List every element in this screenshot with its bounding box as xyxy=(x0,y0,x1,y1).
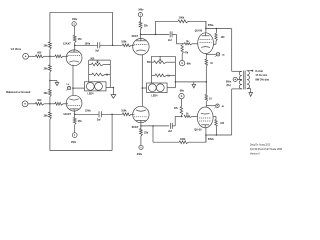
node V3a grid xyxy=(182,43,184,45)
wire OPT bottom lead xyxy=(232,88,242,90)
LED D3 xyxy=(148,84,156,92)
wire driver cathodes xyxy=(141,55,143,106)
svg-text:100k: 100k xyxy=(121,110,127,113)
node A xyxy=(49,56,51,58)
bias terminal -86v lower xyxy=(179,89,185,98)
svg-text:10: 10 xyxy=(210,63,213,65)
wire feedback top rail xyxy=(50,11,113,13)
wire R17 to bias terminal xyxy=(181,54,183,61)
svg-text:LED4: LED4 xyxy=(152,95,159,98)
node B xyxy=(49,80,51,82)
wire OPT to rail lower xyxy=(231,89,233,135)
wire node A down xyxy=(49,56,51,65)
svg-text:8 ohm: 8 ohm xyxy=(255,69,263,73)
wire frame joins P2 xyxy=(152,62,176,75)
wire cathode to TP3 xyxy=(206,105,216,107)
node cathode driver pair xyxy=(142,87,144,89)
node driver ground xyxy=(175,81,177,83)
wire R10 to V2a grid xyxy=(131,44,134,46)
svg-text:10: 10 xyxy=(209,98,212,100)
triode V1a 12AX7 xyxy=(63,42,82,65)
wire rail to OPT top xyxy=(231,29,233,72)
label speaker power xyxy=(255,77,269,81)
svg-text:100: 100 xyxy=(220,123,225,125)
wire V2b plate down xyxy=(140,123,142,126)
node C xyxy=(49,103,51,105)
svg-text:100k: 100k xyxy=(179,17,185,20)
wire feedback up xyxy=(154,21,156,34)
transformer T1 primary xyxy=(239,71,242,89)
wire plate node down xyxy=(74,114,76,117)
node V1b plate xyxy=(74,114,76,116)
svg-text:600: 600 xyxy=(37,99,42,102)
wire J1 to R1 xyxy=(29,55,36,57)
wire V1a cathode down xyxy=(72,65,74,96)
svg-text:47k: 47k xyxy=(78,38,83,41)
wire frame joins P1 xyxy=(89,64,111,74)
wire V1b plate down xyxy=(74,111,76,114)
svg-text:47k: 47k xyxy=(184,52,189,55)
wire R25 to screen lower xyxy=(213,116,216,119)
wire top corner down xyxy=(49,12,51,42)
label LED4 input xyxy=(88,93,95,96)
LED bias box input xyxy=(85,82,107,91)
wire R15 to plate rail xyxy=(189,21,206,28)
wire C4 to rise xyxy=(172,116,182,126)
power terminal 150v lower xyxy=(71,133,77,144)
svg-text:1.6: 1.6 xyxy=(66,84,70,86)
svg-text:17.3v rms: 17.3v rms xyxy=(255,73,268,77)
label LED4 driver xyxy=(152,95,159,98)
wire R23 to screen xyxy=(213,41,216,44)
wire R4 to node B xyxy=(49,72,51,80)
resistor R8 1k xyxy=(55,102,63,105)
label speaker vrms xyxy=(255,73,268,77)
svg-text:100k: 100k xyxy=(180,138,186,141)
wire screen drop xyxy=(215,29,217,34)
resistor R16 1k grid stopper xyxy=(184,41,192,45)
svg-text:2uf: 2uf xyxy=(168,130,172,133)
title line 1 xyxy=(250,143,270,147)
wire OPT top lead xyxy=(232,70,242,72)
wire R21 to V3b grid xyxy=(192,115,198,117)
wire R24 to ground node xyxy=(205,66,207,82)
power terminal -340v driver xyxy=(137,145,143,156)
svg-text:50Vb: 50Vb xyxy=(208,138,214,141)
wire V3a plate up xyxy=(205,21,207,33)
test point TP3 .41 xyxy=(214,104,225,109)
node screen tap upper xyxy=(216,28,218,30)
svg-text:QU-50: QU-50 xyxy=(194,129,202,132)
wire R13 to V2b grid xyxy=(131,113,134,115)
svg-text:1.0 Vrms: 1.0 Vrms xyxy=(11,47,22,51)
wire driver cathode right xyxy=(142,87,146,89)
resistor R11 1k xyxy=(92,73,109,77)
wire R9 to supply xyxy=(74,26,76,35)
svg-text:1k: 1k xyxy=(106,75,109,77)
wire feedback row lower xyxy=(153,141,179,143)
LED D2 xyxy=(95,83,103,91)
transformer T1 core xyxy=(244,71,245,90)
triode V1b 12AX7 xyxy=(63,95,82,116)
wire V3b plate down xyxy=(205,128,207,142)
test point TP1 xyxy=(66,84,71,91)
resistor R17 47k grid leak xyxy=(181,45,189,55)
resistor R15 100k feedback xyxy=(178,17,189,23)
svg-text:50Va: 50Va xyxy=(208,24,214,27)
svg-text:20k: 20k xyxy=(44,92,49,95)
wire LED box to ground xyxy=(106,87,114,95)
LED bias box driver xyxy=(147,83,168,93)
wire C3 to drop xyxy=(172,34,183,43)
wire V1b cathode up xyxy=(72,95,74,97)
svg-text:560v: 560v xyxy=(226,81,232,83)
pot P2 frame xyxy=(152,56,176,87)
wire feedback down xyxy=(152,126,154,142)
wire plate node right lower xyxy=(141,125,169,127)
resistor R14 22k plate load xyxy=(139,22,148,29)
ground secondary xyxy=(249,93,253,97)
resistor R5 20k xyxy=(44,89,52,96)
resistor R19 22k plate load xyxy=(140,129,149,136)
wire R2 to V1a grid xyxy=(63,55,68,57)
wire R19 to supply xyxy=(140,136,142,145)
ground driver cathode xyxy=(192,82,196,88)
wire plate to C1 xyxy=(75,44,98,46)
svg-text:QU-50: QU-50 xyxy=(195,29,203,32)
plate rail 50Vb xyxy=(206,135,232,141)
wire feedback row upper xyxy=(155,20,178,22)
bias terminal -86v upper xyxy=(179,60,191,65)
pot P1 frame xyxy=(89,60,111,87)
wire plate to C2 xyxy=(75,113,99,115)
wire R3 to node A xyxy=(49,49,51,56)
test point TP2 .41 xyxy=(215,53,226,58)
label speaker 8 ohm xyxy=(255,69,263,73)
svg-text:2uf: 2uf xyxy=(97,119,101,122)
svg-text:12AX7: 12AX7 xyxy=(63,42,71,45)
LED D1 xyxy=(86,83,94,91)
resistor R26 10 cathode xyxy=(205,95,212,102)
ground input cathode xyxy=(111,95,116,99)
resistor R23 100 screen xyxy=(215,33,225,41)
node V3b plate rail xyxy=(205,134,207,136)
wire R6 to bottom rail xyxy=(49,119,51,150)
node speaker output xyxy=(252,70,254,72)
pentode V3b QU-50 xyxy=(194,107,213,132)
svg-text:150v: 150v xyxy=(71,141,77,144)
wire R5 to node C xyxy=(49,97,51,104)
svg-text:.41: .41 xyxy=(221,105,225,108)
resistor R10 100k xyxy=(121,41,131,47)
svg-text:6CG7: 6CG7 xyxy=(132,126,139,129)
node feedback top xyxy=(112,45,114,47)
svg-text:2uf: 2uf xyxy=(95,50,99,53)
wire R7 to node C xyxy=(44,103,55,105)
ground input divider xyxy=(55,83,59,86)
resistor R9 47k plate load xyxy=(73,35,82,42)
wire feedback bottom rise xyxy=(111,114,113,150)
wire R20 to plate rail lower xyxy=(189,135,206,142)
svg-text:Doug De Young 2013: Doug De Young 2013 xyxy=(250,143,270,147)
svg-text:340v: 340v xyxy=(138,8,144,11)
resistor R18 1k xyxy=(155,74,170,77)
svg-text:LED4: LED4 xyxy=(88,93,95,96)
wire C1 to R10 xyxy=(100,44,123,46)
pot P1 500 xyxy=(90,58,103,65)
power terminal B+ 560v xyxy=(226,77,237,87)
wire node B down xyxy=(49,81,51,90)
power terminal 150v upper xyxy=(72,18,78,26)
plate rail 50Va xyxy=(206,24,232,29)
resistor R2 1k xyxy=(55,55,63,58)
resistor R21 1k grid stopper xyxy=(184,114,192,118)
svg-text:22k: 22k xyxy=(144,24,149,27)
resistor R3 20k xyxy=(44,42,52,49)
resistor R4 20k xyxy=(44,65,52,72)
node V1a plate xyxy=(74,45,76,47)
wire LED box2 to frame xyxy=(167,87,175,89)
input terminal J2 xyxy=(6,91,31,107)
label net 15Vb xyxy=(85,110,91,113)
pentode V3a QU-50 xyxy=(195,29,214,53)
svg-text:20k: 20k xyxy=(44,45,49,48)
wire plate node up xyxy=(74,43,76,46)
svg-text:340v: 340v xyxy=(137,153,143,156)
node output cathodes xyxy=(206,81,208,83)
wire node C down xyxy=(49,104,51,112)
svg-text:(B+): (B+) xyxy=(226,85,231,87)
capacitor C4 2uf xyxy=(168,123,172,133)
wire cathode node right xyxy=(73,87,85,89)
wire V2a plate up xyxy=(140,34,142,38)
wire R1 to node A xyxy=(44,55,55,57)
node V3a plate rail xyxy=(205,28,207,30)
svg-text:100k: 100k xyxy=(121,41,127,44)
wire secondary top xyxy=(247,70,252,72)
svg-text:.41: .41 xyxy=(222,53,226,56)
wire secondary bottom xyxy=(247,89,251,93)
wire screen rise xyxy=(215,127,217,135)
resistor R25 100 screen xyxy=(215,120,225,128)
triode V2b 6CG7 xyxy=(132,106,149,129)
wire C2 to R13 xyxy=(101,113,122,115)
wire node B to ground xyxy=(50,81,57,83)
svg-text:6CG7: 6CG7 xyxy=(132,35,139,38)
capacitor C1 2uf xyxy=(95,42,100,52)
svg-text:Balanced or Ground: Balanced or Ground xyxy=(6,91,31,94)
svg-text:47k: 47k xyxy=(174,107,179,110)
wire V3a cathode down xyxy=(205,54,207,60)
wire ground bus xyxy=(175,81,206,83)
resistor R1 600 xyxy=(36,51,45,57)
svg-text:20k: 20k xyxy=(44,67,49,70)
wire R8 to V1b grid xyxy=(63,103,68,105)
node V3b grid xyxy=(181,116,183,118)
svg-text:2uf: 2uf xyxy=(168,39,172,42)
resistor R22 47k grid leak xyxy=(174,107,183,116)
input terminal J1 xyxy=(11,47,29,59)
wire B+ to primary CT xyxy=(237,78,242,80)
svg-text:22k: 22k xyxy=(144,132,149,135)
wire R22 wire xyxy=(180,99,182,117)
capacitor C2 2uf xyxy=(97,111,101,121)
svg-text:-86v: -86v xyxy=(179,89,184,92)
resistor R12 47k plate load xyxy=(73,117,82,124)
svg-text:8W 3% dist: 8W 3% dist xyxy=(255,77,269,81)
wire R16 to V3a grid xyxy=(192,43,198,45)
resistor R20 100k feedback xyxy=(179,138,188,144)
title line 2 xyxy=(250,147,282,151)
resistor R13 100k xyxy=(121,110,131,116)
wire V3b cathode up xyxy=(205,102,207,107)
wire feedback bottom rail xyxy=(50,150,112,152)
wire cathode to TP2 xyxy=(206,53,216,55)
wire R14 to supply xyxy=(140,17,142,22)
node cathode input pair xyxy=(72,87,74,89)
svg-text:100: 100 xyxy=(221,37,226,39)
LED D4 xyxy=(156,84,164,92)
svg-text:150v: 150v xyxy=(72,18,78,21)
node screen tap lower xyxy=(216,134,218,136)
title line 3 xyxy=(250,151,260,155)
svg-text:600: 600 xyxy=(37,51,42,54)
resistor R24 10 cathode xyxy=(205,59,213,66)
node feedback takeoff lower xyxy=(152,125,154,127)
svg-text:20k: 20k xyxy=(44,114,49,117)
wire R12 to supply xyxy=(74,125,76,133)
node V2a plate xyxy=(140,34,142,36)
pot P2 500 xyxy=(147,56,167,64)
wire plate node up xyxy=(140,29,142,34)
svg-text:12AX7: 12AX7 xyxy=(63,113,71,116)
capacitor C3 2uf xyxy=(168,31,172,42)
transformer T1 secondary xyxy=(247,71,250,89)
label net 15Va xyxy=(85,42,91,45)
svg-text:QU-50 Push Pull Triode 30W: QU-50 Push Pull Triode 30W xyxy=(250,147,282,151)
svg-text:500: 500 xyxy=(147,62,152,64)
node feedback bottom xyxy=(111,114,113,116)
wire J2 to R7 xyxy=(28,103,36,105)
wire R26 to ground node xyxy=(205,82,207,95)
wire plate node down xyxy=(140,126,142,129)
wire plate node right xyxy=(141,33,170,35)
svg-text:-86v: -86v xyxy=(186,63,191,66)
triode V2a 6CG7 xyxy=(132,35,149,55)
svg-text:47k: 47k xyxy=(78,120,83,123)
wire feedback top drop xyxy=(112,12,114,45)
node feedback takeoff upper xyxy=(155,34,157,36)
resistor R6 20k xyxy=(44,112,52,119)
resistor R7 600 xyxy=(36,99,45,105)
power terminal 340v driver xyxy=(138,8,144,16)
wire V1a plate up xyxy=(74,45,76,50)
node V2b plate xyxy=(140,125,142,127)
svg-text:15Vb: 15Vb xyxy=(85,110,91,113)
svg-text:Version 6: Version 6 xyxy=(250,151,260,155)
